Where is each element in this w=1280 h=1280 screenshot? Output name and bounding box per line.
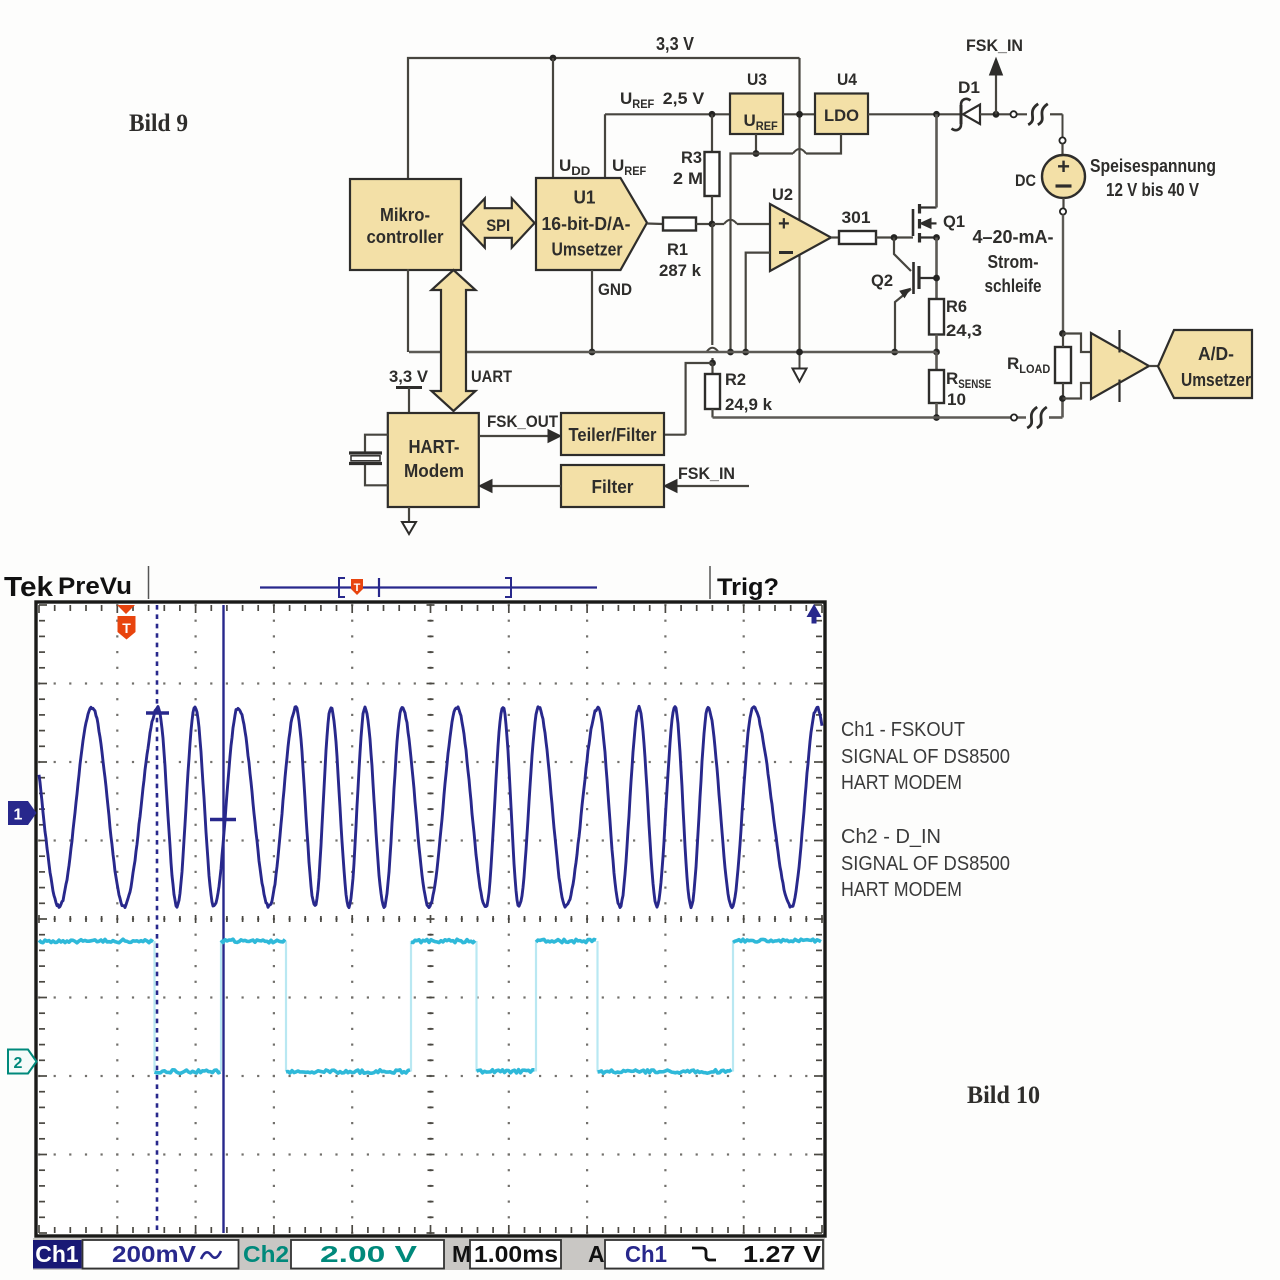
svg-text:Umsetzer: Umsetzer	[1181, 370, 1251, 390]
block A/D converter	[1158, 330, 1252, 398]
block Teiler/Filter	[561, 413, 664, 455]
junction R3 top on UREF net	[709, 111, 716, 118]
svg-text:FSK_IN: FSK_IN	[966, 36, 1023, 55]
terminal below DC source	[1060, 208, 1066, 214]
svg-text:Ch1: Ch1	[35, 1241, 79, 1267]
junction R2 top node	[709, 360, 716, 367]
scope trigger T marker top	[117, 605, 135, 614]
scope header divider right	[709, 566, 711, 599]
terminal on loop return	[1011, 414, 1017, 420]
scope acquisition bar	[260, 586, 597, 588]
resistor R6 24,3	[929, 299, 944, 335]
loop return rail	[713, 416, 1027, 419]
block U4 LDO	[815, 94, 868, 135]
svg-text:HART MODEM: HART MODEM	[841, 772, 962, 794]
svg-text:287 k: 287 k	[659, 261, 702, 280]
svg-text:Trig?: Trig?	[717, 574, 779, 601]
svg-text:T: T	[354, 582, 361, 594]
svg-text:Mikro-: Mikro-	[380, 205, 430, 225]
svg-text:3,3 V: 3,3 V	[656, 34, 694, 54]
svg-text:D1: D1	[958, 78, 980, 97]
svg-text:T: T	[122, 620, 131, 636]
svg-text:Modem: Modem	[404, 461, 464, 481]
svg-text:Tek: Tek	[4, 571, 53, 602]
wire riser from 3.3V rail down to LDO output node and ground rail	[798, 58, 800, 352]
svg-text:R1: R1	[667, 240, 688, 259]
junction U3/U4 ground wire	[753, 150, 760, 157]
svg-text:1: 1	[14, 807, 23, 824]
wire loop corner down to DC source	[1062, 114, 1064, 137]
svg-text:Filter: Filter	[592, 477, 634, 497]
crystal at HART modem	[365, 435, 388, 452]
svg-text:4–20-mA-: 4–20-mA-	[973, 227, 1054, 247]
wire U4 ground lead with hop over riser	[806, 134, 841, 154]
junction RLOAD top	[1059, 330, 1066, 337]
svg-text:Speisespannung: Speisespannung	[1090, 156, 1216, 176]
svg-text:controller: controller	[367, 227, 444, 247]
scope header divider	[148, 566, 150, 599]
wire U4 to diode D1	[868, 113, 961, 115]
wire UREF 2.5V net from U1 riser to U3	[605, 113, 730, 115]
svg-text:16-bit-D/A-: 16-bit-D/A-	[542, 214, 631, 234]
wire U3 ground stub	[755, 134, 757, 154]
transistor Q2	[894, 238, 911, 272]
junction RLOAD bottom	[1059, 395, 1066, 402]
block Filter	[561, 465, 664, 507]
svg-text:2 M: 2 M	[673, 169, 703, 188]
resistor R1 287 k	[647, 222, 663, 225]
ground symbol below HART modem	[408, 507, 410, 522]
wire FSK_IN into Filter	[673, 485, 749, 487]
svg-text:+: +	[778, 213, 790, 235]
svg-text:R2: R2	[725, 370, 746, 389]
wire DC source to lower terminal	[1062, 198, 1064, 209]
svg-text:24,9 k: 24,9 k	[725, 395, 773, 414]
svg-text:R3: R3	[681, 148, 702, 167]
wire D1 to loop corner	[980, 113, 1027, 115]
svg-text:3,3 V: 3,3 V	[389, 367, 429, 386]
svg-text:Bild 10: Bild 10	[967, 1082, 1040, 1109]
svg-text:Bild 9: Bild 9	[129, 110, 188, 137]
svg-text:2.00 V: 2.00 V	[320, 1241, 418, 1267]
junction Q1 source node	[933, 234, 940, 241]
scope Ch1 FSK waveform	[39, 706, 822, 907]
bus arrow SPI between microcontroller and U1	[462, 198, 535, 247]
wire Filter output arrow to HART modem	[488, 485, 561, 487]
break symbol on loop top	[1028, 104, 1038, 125]
junction Q1 drain branch	[933, 111, 940, 118]
break symbol on loop return	[1027, 407, 1037, 428]
svg-text:301: 301	[842, 208, 871, 227]
svg-text:Q2: Q2	[871, 271, 893, 290]
wire R2 node from Teiler/Filter output	[686, 363, 713, 435]
svg-text:Teiler/Filter: Teiler/Filter	[569, 425, 657, 445]
block microcontroller	[350, 179, 461, 270]
transistor Q1 N-MOSFET	[912, 209, 915, 236]
svg-text:Ch2 - D_IN: Ch2 - D_IN	[841, 826, 941, 848]
svg-text:Ch1: Ch1	[625, 1241, 667, 1267]
wire U3 output to U4 input	[783, 113, 815, 115]
scope cursor dashed line	[156, 605, 159, 1233]
wire U1 UDD riser	[552, 58, 554, 179]
scope graticule ticks	[39, 605, 822, 1233]
junction Q2 base on loop branch	[933, 275, 940, 282]
op-amp U2	[770, 204, 831, 271]
svg-text:U1: U1	[574, 188, 596, 208]
svg-text:24,3: 24,3	[946, 321, 982, 340]
scope acquisition trigger icon	[351, 579, 363, 595]
wire U1 GND lead to ground rail	[591, 270, 593, 352]
block HART modem	[388, 413, 479, 507]
svg-text:1.00ms: 1.00ms	[474, 1241, 558, 1267]
terminal above DC source	[1059, 137, 1065, 143]
resistor 301	[831, 236, 839, 238]
diode D1 Schottky	[960, 105, 963, 124]
amplifier at A/D converter	[1091, 333, 1149, 399]
junction LDO output node	[796, 111, 803, 118]
svg-text:Q1: Q1	[943, 212, 965, 231]
scope cursor solid line	[222, 605, 224, 1233]
wire amplifier to A/D block	[1149, 365, 1158, 367]
svg-text:200mV: 200mV	[112, 1241, 197, 1267]
svg-text:10: 10	[947, 390, 966, 409]
svg-text:SIGNAL OF DS8500: SIGNAL OF DS8500	[841, 746, 1010, 768]
wire RLOAD bracket to amplifier	[1063, 334, 1092, 353]
junction RSENSE bottom on loop return rail	[933, 414, 940, 421]
svg-text:2: 2	[14, 1055, 23, 1072]
svg-text:GND: GND	[598, 280, 632, 299]
svg-text:U4: U4	[837, 70, 857, 89]
junction U1 GND on ground rail	[589, 349, 596, 356]
svg-text:12 V bis 40 V: 12 V bis 40 V	[1106, 180, 1199, 200]
svg-text:A: A	[588, 1241, 605, 1267]
svg-text:Ch1 - FSKOUT: Ch1 - FSKOUT	[841, 719, 965, 741]
ground symbol on rail	[799, 352, 801, 369]
block U1 16-bit D/A converter	[536, 178, 647, 270]
junction U2 - input ground connection	[742, 349, 749, 356]
svg-text:PreVu: PreVu	[58, 573, 132, 600]
svg-text:FSK_IN: FSK_IN	[678, 464, 735, 483]
svg-text:Umsetzer: Umsetzer	[552, 240, 623, 260]
svg-text:schleife: schleife	[985, 276, 1042, 296]
scope trigger level tick	[210, 818, 236, 821]
svg-text:HART MODEM: HART MODEM	[841, 879, 962, 901]
DC source Speisespannung	[1042, 155, 1085, 198]
wire U1 UREF riser	[604, 114, 606, 179]
wire U2 - input to ground rail	[746, 253, 770, 352]
junction U3/U4 ground drop on rail	[727, 349, 734, 356]
svg-text:SIGNAL OF DS8500: SIGNAL OF DS8500	[841, 853, 1010, 875]
wire loop return up to RLOAD bottom	[1061, 399, 1064, 418]
svg-text:R6: R6	[946, 297, 967, 316]
svg-text:UART: UART	[471, 367, 513, 386]
wire R1/R3 node down with hop over ground rail to R2 node	[711, 224, 713, 345]
scope frame	[36, 602, 825, 1236]
wire R1/R3 node to U2 + input with hop over U3 ground drop	[712, 223, 724, 225]
terminal on loop top	[1011, 111, 1017, 117]
scope Ch2 channel marker	[8, 1050, 37, 1074]
block U3 voltage reference	[730, 94, 783, 135]
svg-text:1.27 V: 1.27 V	[743, 1241, 822, 1267]
svg-text:LDO: LDO	[824, 106, 859, 125]
wire Q1 drain to loop top node	[935, 114, 938, 207]
scope trigger level arrow top right	[807, 604, 822, 624]
svg-text:+: +	[1057, 154, 1070, 179]
resistor RSENSE 10	[935, 352, 938, 370]
scope Ch1 channel marker	[8, 801, 37, 825]
scope Ch2 D_IN waveform	[153, 941, 155, 1072]
svg-text:A/D-: A/D-	[1198, 344, 1234, 364]
wire Q1 source down to Q2 branch and R6	[935, 238, 938, 300]
svg-text:Strom-: Strom-	[988, 252, 1039, 272]
wire FSK_OUT arrow to Teiler/Filter	[479, 435, 552, 437]
scope footer bar	[33, 1238, 825, 1270]
junction R6 bottom on ground rail	[933, 349, 940, 356]
wire 3.3V rail from microcontroller top to right corner	[408, 58, 800, 179]
svg-text:M: M	[452, 1241, 471, 1267]
junction Q2 emitter on ground rail	[891, 349, 898, 356]
wire DC down to RLOAD node	[1062, 215, 1064, 334]
ground rail	[409, 351, 937, 354]
junction R1-R3 node (U2 + input)	[709, 221, 716, 228]
junction U1 UDD riser on 3.3V rail	[550, 55, 557, 62]
resistor RLOAD	[1055, 347, 1071, 383]
svg-text:U2: U2	[772, 185, 793, 204]
svg-text:Ch2: Ch2	[243, 1241, 289, 1267]
svg-text:SPI: SPI	[486, 216, 510, 235]
scope trigger position tick	[146, 711, 169, 714]
bus arrow UART	[432, 270, 476, 411]
wire Teiler/Filter right lead	[664, 434, 686, 436]
junction ground symbol on rail	[796, 349, 803, 356]
junction Q1 gate / Q2 collector node	[891, 234, 898, 241]
wire microcontroller bottom to ground rail	[407, 269, 409, 352]
resistor R2 24,9 k	[711, 363, 713, 374]
svg-text:HART-: HART-	[409, 437, 460, 457]
resistor R3 2 M	[711, 114, 713, 152]
scope graticule dots	[38, 604, 823, 1234]
svg-text:U3: U3	[747, 70, 767, 89]
svg-text:DC: DC	[1015, 171, 1036, 190]
signal FSK_IN tap at loop	[993, 111, 1000, 118]
svg-text:FSK_OUT: FSK_OUT	[487, 412, 559, 431]
